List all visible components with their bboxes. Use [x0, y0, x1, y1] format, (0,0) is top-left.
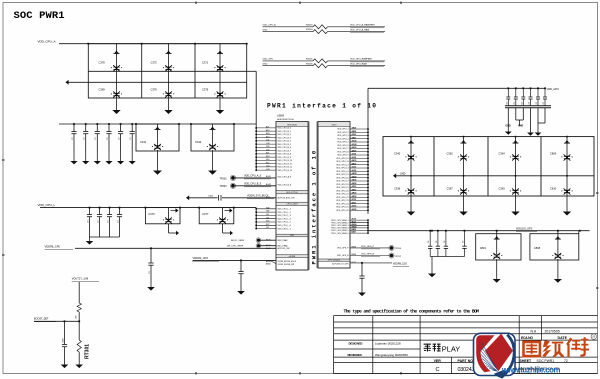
- svg-text:C362: C362: [447, 152, 454, 156]
- svg-text:VDD_CPU_A_RAMPART: VDD_CPU_A_RAMPART: [350, 24, 376, 27]
- svg-text:GND: GND: [400, 172, 406, 175]
- IC right pins PROC_GPU_MEM group: [331, 218, 369, 235]
- svg-text:C369: C369: [99, 88, 106, 92]
- net label VDDLDO_GPS: [516, 227, 537, 231]
- svg-text:VDD_GPU: VDD_GPU: [263, 59, 274, 61]
- IC left rows VDD_CPU_B_M: [266, 175, 292, 186]
- ground below C342: [208, 168, 217, 175]
- svg-text:C: C: [436, 367, 440, 373]
- wire VDD_GPU feed: [368, 87, 545, 89]
- capacitor bank C812-C814: [428, 230, 465, 257]
- capacitor C367: [447, 176, 470, 210]
- svg-text:VDD_GPU_RAMPART: VDD_GPU_RAMPART: [350, 58, 373, 61]
- svg-text:C367: C367: [447, 187, 454, 191]
- svg-text:VDD_CPU_B_8: VDD_CPU_B_8: [278, 154, 291, 156]
- svg-text:E43: E43: [266, 156, 269, 158]
- svg-text:AM35: AM35: [352, 172, 357, 175]
- svg-text:C341: C341: [140, 140, 147, 144]
- svg-text:VDD_GPU_21: VDD_GPU_21: [336, 194, 348, 196]
- svg-text:BUCK_VREF: BUCK_VREF: [231, 240, 245, 242]
- svg-text:VDD_GPU_3: VDD_GPU_3: [337, 135, 348, 137]
- svg-text:AH35: AH35: [352, 146, 357, 149]
- capacitor C809: [62, 320, 67, 363]
- wire comb bus bars: [505, 106, 551, 108]
- capacitor C369: [99, 71, 123, 98]
- svg-text:AM40: AM40: [266, 260, 271, 263]
- svg-text:GND: GND: [263, 29, 268, 31]
- svg-text:CPU L+BUS: CPU L+BUS: [286, 204, 298, 206]
- ground below RT301: [75, 363, 83, 368]
- wire VDD_CPU_A decoupling rail: [59, 123, 256, 125]
- svg-text:VDD_GPU_22: VDD_GPU_22: [336, 197, 348, 199]
- capacitor C371: [202, 44, 226, 72]
- ground below C332: [94, 152, 101, 164]
- svg-text:H42: H42: [266, 211, 269, 213]
- svg-text:AK37: AK37: [352, 162, 357, 165]
- ground below C341: [153, 168, 162, 175]
- svg-text:AG41: AG41: [266, 175, 271, 178]
- capacitor C358 on VDDFB: [148, 247, 153, 284]
- svg-text:VDD_GPU_6: VDD_GPU_6: [337, 145, 348, 147]
- svg-text:VDD_CPU_B_3: VDD_CPU_B_3: [278, 137, 291, 139]
- ground below C330: [70, 152, 77, 164]
- IC left row ACPU18_OSC: [266, 247, 291, 250]
- svg-text:C372: C372: [151, 61, 158, 65]
- svg-text:ECA NO: ECA NO: [521, 336, 533, 340]
- capacitor C331 (small decoupling): [83, 123, 88, 152]
- svg-text:AL41: AL41: [266, 247, 270, 250]
- svg-text:C8: C8: [463, 241, 465, 243]
- svg-text:AG36: AG36: [352, 140, 357, 143]
- svg-text:20170505: 20170505: [545, 330, 560, 334]
- svg-text:C370: C370: [148, 212, 155, 216]
- svg-text:AN38: AN38: [352, 182, 357, 185]
- svg-text:H40: H40: [266, 207, 269, 209]
- test point TP306 DR_CPU_VREF: [227, 243, 276, 248]
- svg-text:AM42: AM42: [266, 262, 271, 265]
- svg-text:VDD_GPU_2: VDD_GPU_2: [337, 132, 348, 134]
- wire BOOST_DET: [34, 320, 79, 322]
- svg-text:SOC PWR1: SOC PWR1: [537, 359, 555, 363]
- capacitor array outline: [88, 44, 246, 98]
- svg-text:AG38: AG38: [352, 143, 357, 146]
- svg-text:VDD_CPU_B_1: VDD_CPU_B_1: [278, 131, 291, 133]
- capacitor C370: [145, 207, 181, 230]
- svg-text:AG43: AG43: [266, 183, 271, 186]
- svg-text:J41: J41: [266, 214, 269, 216]
- svg-text:C340: C340: [394, 152, 401, 156]
- svg-text:AR36: AR36: [352, 192, 357, 195]
- svg-text:ACPU018_TO_GPS: ACPU018_TO_GPS: [332, 262, 349, 265]
- svg-text:VDD_CPU_L_2: VDD_CPU_L_2: [278, 212, 291, 214]
- wire VDD_CPU_L pin bus: [255, 208, 257, 229]
- title block texts: [348, 330, 568, 374]
- capacitor C359 on VDDR2: [238, 260, 243, 291]
- svg-text:VDD_GPU_25: VDD_GPU_25: [336, 207, 348, 209]
- svg-text:DR_CPU_VREF: DR_CPU_VREF: [227, 246, 244, 248]
- capacitor C330 (small decoupling): [71, 123, 76, 152]
- svg-text:BOOST_DET: BOOST_DET: [34, 318, 49, 321]
- svg-text:AF37: AF37: [352, 136, 357, 139]
- svg-text:RT301: RT301: [85, 344, 91, 359]
- capacitor C372: [151, 44, 175, 72]
- wire to BOOST_DET node: [78, 312, 80, 321]
- svg-text:VDD_CPU_B_2: VDD_CPU_B_2: [278, 134, 291, 136]
- capacitor C377: [198, 207, 234, 230]
- svg-text:VDD_GPU_7: VDD_GPU_7: [337, 148, 348, 150]
- ground below C808: [554, 276, 562, 283]
- IC right pin VDD_GPS_P: [337, 246, 389, 250]
- net label VDDR2_LDO: [193, 256, 220, 261]
- IC left row ACPU18_BUS_CPU: [266, 196, 295, 199]
- svg-text:AF35: AF35: [352, 133, 357, 136]
- svg-text:VDD_GPS_P: VDD_GPS_P: [337, 248, 349, 250]
- svg-text:C8: C8: [428, 241, 430, 243]
- svg-text:VDD_GPU_13: VDD_GPU_13: [336, 168, 348, 170]
- capacitor C364: [499, 136, 522, 177]
- svg-text:BC37: BC37: [352, 262, 357, 264]
- svg-text:GPS Compass: GPS Compass: [328, 260, 341, 262]
- svg-text:VDDR2_LDO: VDDR2_LDO: [193, 256, 209, 260]
- svg-text:BUK_PEAK: BUK_PEAK: [278, 239, 289, 242]
- capacitor C332 (small decoupling): [95, 123, 100, 152]
- wire VDD_GPU pin bus: [367, 88, 369, 214]
- svg-text:AK40: AK40: [266, 239, 271, 242]
- svg-text:VDD_GPU: VDD_GPU: [547, 87, 560, 91]
- svg-text:AGC_PEAK: AGC_PEAK: [278, 244, 289, 247]
- svg-text:TP317: TP317: [395, 256, 402, 258]
- svg-text:D40: D40: [266, 146, 269, 148]
- ground below C369: [112, 98, 120, 114]
- svg-text:A43: A43: [266, 129, 269, 132]
- probe arrow below C377: [223, 230, 234, 235]
- svg-text:AW38: AW38: [352, 226, 357, 229]
- svg-text:AU36: AU36: [352, 205, 357, 208]
- test point TP317: [389, 253, 402, 258]
- resistor R7302: [75, 303, 81, 319]
- ground below C376: [216, 98, 224, 114]
- svg-text:VDD_GPU_23: VDD_GPU_23: [336, 200, 348, 202]
- ground for VDD_CPU_L caps: [86, 237, 94, 245]
- wire VDD_CPU_A rail: [59, 43, 247, 45]
- svg-text:VDD_GPU_19: VDD_GPU_19: [336, 187, 348, 189]
- IC header eFUSE: [276, 255, 308, 258]
- svg-text:AH37: AH37: [352, 149, 357, 152]
- svg-text:C806: C806: [550, 152, 557, 156]
- svg-text:AJ41: AJ41: [266, 196, 270, 199]
- svg-text:C376: C376: [202, 88, 209, 92]
- svg-text:G41: G41: [266, 166, 270, 168]
- svg-text:Wangxiaoyang 00200659: Wangxiaoyang 00200659: [375, 353, 408, 357]
- svg-text:VDD_GPU_12: VDD_GPU_12: [336, 164, 348, 166]
- wire VDDFB_CPU: [75, 247, 276, 249]
- svg-text:VDD_GPU_1: VDD_GPU_1: [337, 129, 348, 131]
- svg-text:VDD LITTLE: VDD LITTLE: [286, 192, 298, 194]
- ground below C335: [129, 152, 136, 164]
- svg-text:AJ36: AJ36: [352, 153, 357, 156]
- svg-text:GND: GND: [263, 64, 268, 66]
- svg-text:VDDR8_LDO: VDDR8_LDO: [393, 262, 407, 265]
- IC header GPU: [318, 122, 350, 126]
- svg-text:PWR1 interface 1 of 10: PWR1 interface 1 of 10: [311, 149, 318, 265]
- ground below C379: [164, 98, 172, 114]
- svg-text:U3800: U3800: [277, 114, 285, 117]
- ground comb 2: [527, 130, 534, 136]
- ground below C334: [117, 152, 124, 164]
- svg-text:VDD_CPU_L_6: VDD_CPU_L_6: [278, 225, 291, 227]
- wire VDD_CPU_L rail: [40, 207, 256, 209]
- svg-text:ACPU18_BUS_CPU: ACPU18_BUS_CPU: [278, 197, 296, 200]
- svg-text:VDD_CPU_B_11: VDD_CPU_B_11: [278, 163, 292, 165]
- wire GND return with left net arrow: [68, 81, 246, 83]
- capacitor C334 (small decoupling): [118, 123, 123, 152]
- svg-text:J43: J43: [266, 217, 269, 219]
- capacitor C336: [394, 176, 417, 210]
- ground below C331: [82, 152, 89, 164]
- svg-text:VDD_CPU_A: VDD_CPU_A: [263, 24, 277, 27]
- IC U3800 reference: [277, 114, 295, 121]
- svg-text:C8: C8: [444, 241, 446, 243]
- svg-text:AT37: AT37: [352, 201, 356, 204]
- svg-text:VDD_GPU_17: VDD_GPU_17: [336, 181, 348, 183]
- capacitor C360 (VDD_CPU_L decoupling): [87, 207, 92, 237]
- wire left pin bus: [255, 124, 257, 171]
- capacitor C363: [499, 176, 522, 210]
- svg-text:C41: C41: [266, 140, 269, 142]
- capacitor grid outline right: [383, 137, 594, 196]
- svg-text:R3206: R3206: [306, 63, 313, 65]
- capacitor C335 (small decoupling): [130, 123, 135, 152]
- svg-text:C808: C808: [534, 246, 541, 250]
- capacitor C815: [462, 230, 466, 257]
- wire rail end stub: [579, 230, 590, 234]
- svg-text:VDD_GPU_11: VDD_GPU_11: [336, 161, 348, 163]
- IC header OSC: [276, 234, 308, 237]
- svg-text:C363: C363: [499, 187, 506, 191]
- svg-text:VOUT2Y_1V8: VOUT2Y_1V8: [72, 276, 89, 280]
- test point TP305 XXX_VREF: [231, 238, 276, 243]
- svg-text:AT35: AT35: [352, 198, 356, 201]
- svg-text:C810: C810: [550, 187, 557, 191]
- svg-text:GPU: GPU: [332, 124, 337, 126]
- svg-text:AR38: AR38: [352, 195, 357, 198]
- ground below C333: [105, 152, 112, 164]
- svg-text:VDD_GPU_8: VDD_GPU_8: [337, 151, 348, 153]
- svg-text:VDD_CPU_B_7: VDD_CPU_B_7: [278, 150, 291, 152]
- svg-text:C336: C336: [394, 187, 401, 191]
- capacitor C376: [202, 71, 226, 98]
- svg-text:VDD_GPU_4: VDD_GPU_4: [337, 138, 348, 140]
- svg-text:HI3670GFCV100: HI3670GFCV100: [277, 119, 295, 121]
- svg-text:L41: L41: [266, 227, 269, 229]
- svg-text:AE38: AE38: [352, 130, 357, 133]
- svg-text:VDD BUS: VDD BUS: [287, 124, 297, 126]
- svg-text:VDD_GPS_P: VDD_GPS_P: [361, 246, 375, 248]
- svg-text:VDD_GPS_N: VDD_GPS_N: [337, 255, 349, 257]
- resistor R3204 net tie: [263, 28, 386, 33]
- title block table: [334, 316, 598, 374]
- svg-text:VER: VER: [434, 359, 442, 363]
- svg-text:VDD_GPU_24: VDD_GPU_24: [336, 203, 348, 205]
- svg-text:C43: C43: [266, 143, 269, 145]
- IC header OSC BUS: [276, 191, 308, 195]
- svg-text:C378: C378: [99, 61, 106, 65]
- svg-text:eFUSE: eFUSE: [289, 256, 296, 258]
- svg-text:E41: E41: [266, 153, 269, 155]
- wire cap join: [90, 236, 120, 238]
- net label VDDFB_CPU: [45, 244, 73, 249]
- capacitor C807 below IC: [359, 262, 364, 291]
- capacitor C810: [550, 176, 573, 210]
- svg-text:VDDIN_EFUSE_WR: VDDIN_EFUSE_WR: [278, 264, 295, 266]
- svg-text:GND: GND: [506, 126, 511, 128]
- wire VDDR2_LDO: [193, 259, 277, 261]
- svg-text:C352: C352: [208, 195, 214, 197]
- svg-text:AP35: AP35: [352, 185, 357, 188]
- svg-text:BA35: BA35: [352, 228, 357, 231]
- svg-text:VDD_CPU_B_12: VDD_CPU_B_12: [278, 167, 293, 169]
- svg-text:Liqianran 00251228: Liqianran 00251228: [375, 341, 401, 345]
- svg-text:AK42: AK42: [266, 244, 271, 247]
- svg-text:VDD_CPU_B_S: VDD_CPU_B_S: [278, 184, 292, 186]
- capacitor C352 (series): [186, 195, 276, 201]
- svg-text:VDD_CPU_B_9: VDD_CPU_B_9: [278, 157, 291, 159]
- wire VOUT2Y stub: [78, 282, 80, 303]
- net label VOUT2Y_1V8: [72, 276, 99, 281]
- svg-text:K42: K42: [266, 224, 269, 226]
- svg-text:TP316: TP316: [395, 248, 402, 250]
- svg-text:www.tuzhijie.com: www.tuzhijie.com: [501, 365, 560, 374]
- svg-text:AK35: AK35: [352, 159, 357, 162]
- ground below C363: [511, 210, 519, 216]
- svg-text:VDD_GPU_RAM: VDD_GPU_RAM: [350, 63, 367, 66]
- svg-text:C379: C379: [151, 88, 158, 92]
- IC right pins VDD_GPU group: [336, 127, 369, 212]
- svg-text:VDD_CPU_L_5: VDD_CPU_L_5: [278, 222, 291, 224]
- resistor R3206 net tie: [263, 63, 386, 68]
- capacitor C363 (VDD_CPU_L decoupling): [117, 207, 122, 237]
- svg-text:R3204: R3204: [306, 29, 313, 31]
- svg-text:F40: F40: [266, 159, 269, 161]
- svg-text:VDD_GPS_N: VDD_GPS_N: [361, 253, 375, 255]
- svg-text:N.A: N.A: [531, 330, 537, 334]
- svg-text:VDD_GPU_16: VDD_GPU_16: [336, 177, 348, 179]
- net label BOOST_DET: [34, 318, 56, 322]
- IC U3800 right pin box: [318, 122, 350, 269]
- svg-text:REVIEWED: REVIEWED: [348, 353, 363, 357]
- registered mark: [591, 334, 596, 339]
- resistor R3205 net tie: [263, 58, 386, 63]
- IC left rows eFUSE: [266, 260, 297, 266]
- svg-text:AU38: AU38: [352, 208, 357, 211]
- svg-text:VDD_CPU_A_S: VDD_CPU_A_S: [278, 176, 292, 179]
- svg-text:SHEET: SHEET: [520, 359, 533, 363]
- probe arrow below C370: [169, 230, 180, 235]
- product name cell: [424, 344, 461, 354]
- capacitor C378: [99, 44, 123, 72]
- IC U3800 center label column: [309, 122, 318, 271]
- capacitor C806: [550, 136, 573, 177]
- svg-text:VDD_CPU_L: VDD_CPU_L: [38, 203, 56, 207]
- capacitor C808: [530, 230, 579, 276]
- svg-text:C801: C801: [480, 246, 487, 250]
- svg-text:C371: C371: [202, 61, 209, 65]
- svg-text:The type and specification of: The type and specification of the compon…: [344, 309, 480, 315]
- svg-text:VDD_CPU_L_1: VDD_CPU_L_1: [278, 209, 291, 211]
- svg-text:VDD_CPU_A: VDD_CPU_A: [38, 39, 56, 43]
- svg-text:C364: C364: [499, 152, 506, 156]
- IC header CPU_L STAGE: [276, 202, 308, 205]
- svg-text:K40: K40: [266, 221, 269, 223]
- ground for capacitor bank: [428, 257, 436, 278]
- IC header VDD BUS: [276, 122, 308, 126]
- svg-text:AN36: AN36: [352, 179, 357, 182]
- IC U3800 left pin box: [276, 122, 308, 271]
- svg-text:ACPU18_OSC: ACPU18_OSC: [278, 247, 291, 250]
- net label VDDIN_SYS_BUCK: [247, 195, 274, 199]
- ground comb 1: [505, 128, 512, 135]
- ground below C809: [61, 363, 69, 368]
- test point TP316: [389, 245, 402, 250]
- ground below C359: [237, 290, 245, 295]
- net label VDDR8_LDO: [393, 262, 409, 266]
- svg-text:D42: D42: [266, 149, 269, 151]
- svg-text:VDD_GPU_5: VDD_GPU_5: [337, 142, 348, 144]
- IC left pins VDD_CPU_B group: [255, 126, 292, 172]
- capacitor C362 (VDD_CPU_L decoupling): [107, 207, 112, 237]
- svg-text:VDD_CPU_A_S: VDD_CPU_A_S: [244, 175, 262, 178]
- svg-text:PART NO: PART NO: [458, 359, 474, 363]
- capacitor comb C820-C825: [506, 87, 547, 105]
- svg-text:VDDFB_CPU: VDDFB_CPU: [45, 244, 61, 248]
- svg-text:DESIGNED: DESIGNED: [349, 341, 364, 345]
- svg-text:VDD_CPU_B_0: VDD_CPU_B_0: [278, 128, 291, 130]
- svg-text:AV37: AV37: [352, 220, 356, 223]
- svg-text:VDD_CPU_L_4: VDD_CPU_L_4: [278, 218, 291, 220]
- GND labels comb: [506, 126, 524, 128]
- svg-text:R3205: R3205: [306, 59, 313, 61]
- svg-text:SOC PWR1: SOC PWR1: [14, 10, 65, 22]
- svg-text:VDDLDO_GPS: VDDLDO_GPS: [516, 227, 533, 230]
- svg-text:B42: B42: [266, 136, 269, 138]
- svg-text:TP303: TP303: [220, 185, 228, 188]
- svg-text:VDD_GPU_20: VDD_GPU_20: [336, 190, 348, 192]
- wire GND mid line: [393, 172, 594, 178]
- test point TP303: [220, 183, 277, 189]
- svg-text:VDD_GPU_10: VDD_GPU_10: [336, 158, 348, 160]
- svg-text:PROC_GPU_MEM_6: PROC_GPU_MEM_6: [331, 233, 348, 235]
- resistor R3203 net tie: [263, 24, 386, 29]
- svg-text:AV35: AV35: [352, 218, 356, 221]
- svg-text:VDD_CPU_L_3: VDD_CPU_L_3: [278, 215, 291, 217]
- svg-text:BA37: BA37: [352, 231, 357, 234]
- svg-text:GND: GND: [518, 126, 523, 128]
- svg-text:F42: F42: [266, 162, 269, 164]
- svg-text:VDD_GPU_18: VDD_GPU_18: [336, 184, 348, 186]
- svg-text:DATE: DATE: [558, 336, 568, 340]
- svg-text:AL36: AL36: [352, 166, 357, 169]
- capacitor C342: [190, 123, 235, 168]
- svg-text:TP302: TP302: [220, 177, 228, 180]
- ground below C336: [407, 210, 415, 216]
- capacitor C379: [151, 71, 175, 98]
- svg-text:VDD_GPU_15: VDD_GPU_15: [336, 174, 348, 176]
- ground below C807: [358, 291, 366, 296]
- svg-text:VDD_CPU_B_10: VDD_CPU_B_10: [278, 160, 293, 162]
- IC right pin VDD_GPS_N: [337, 253, 389, 257]
- IC left rows PEAK: [266, 239, 288, 248]
- svg-text:OSC: OSC: [290, 235, 295, 237]
